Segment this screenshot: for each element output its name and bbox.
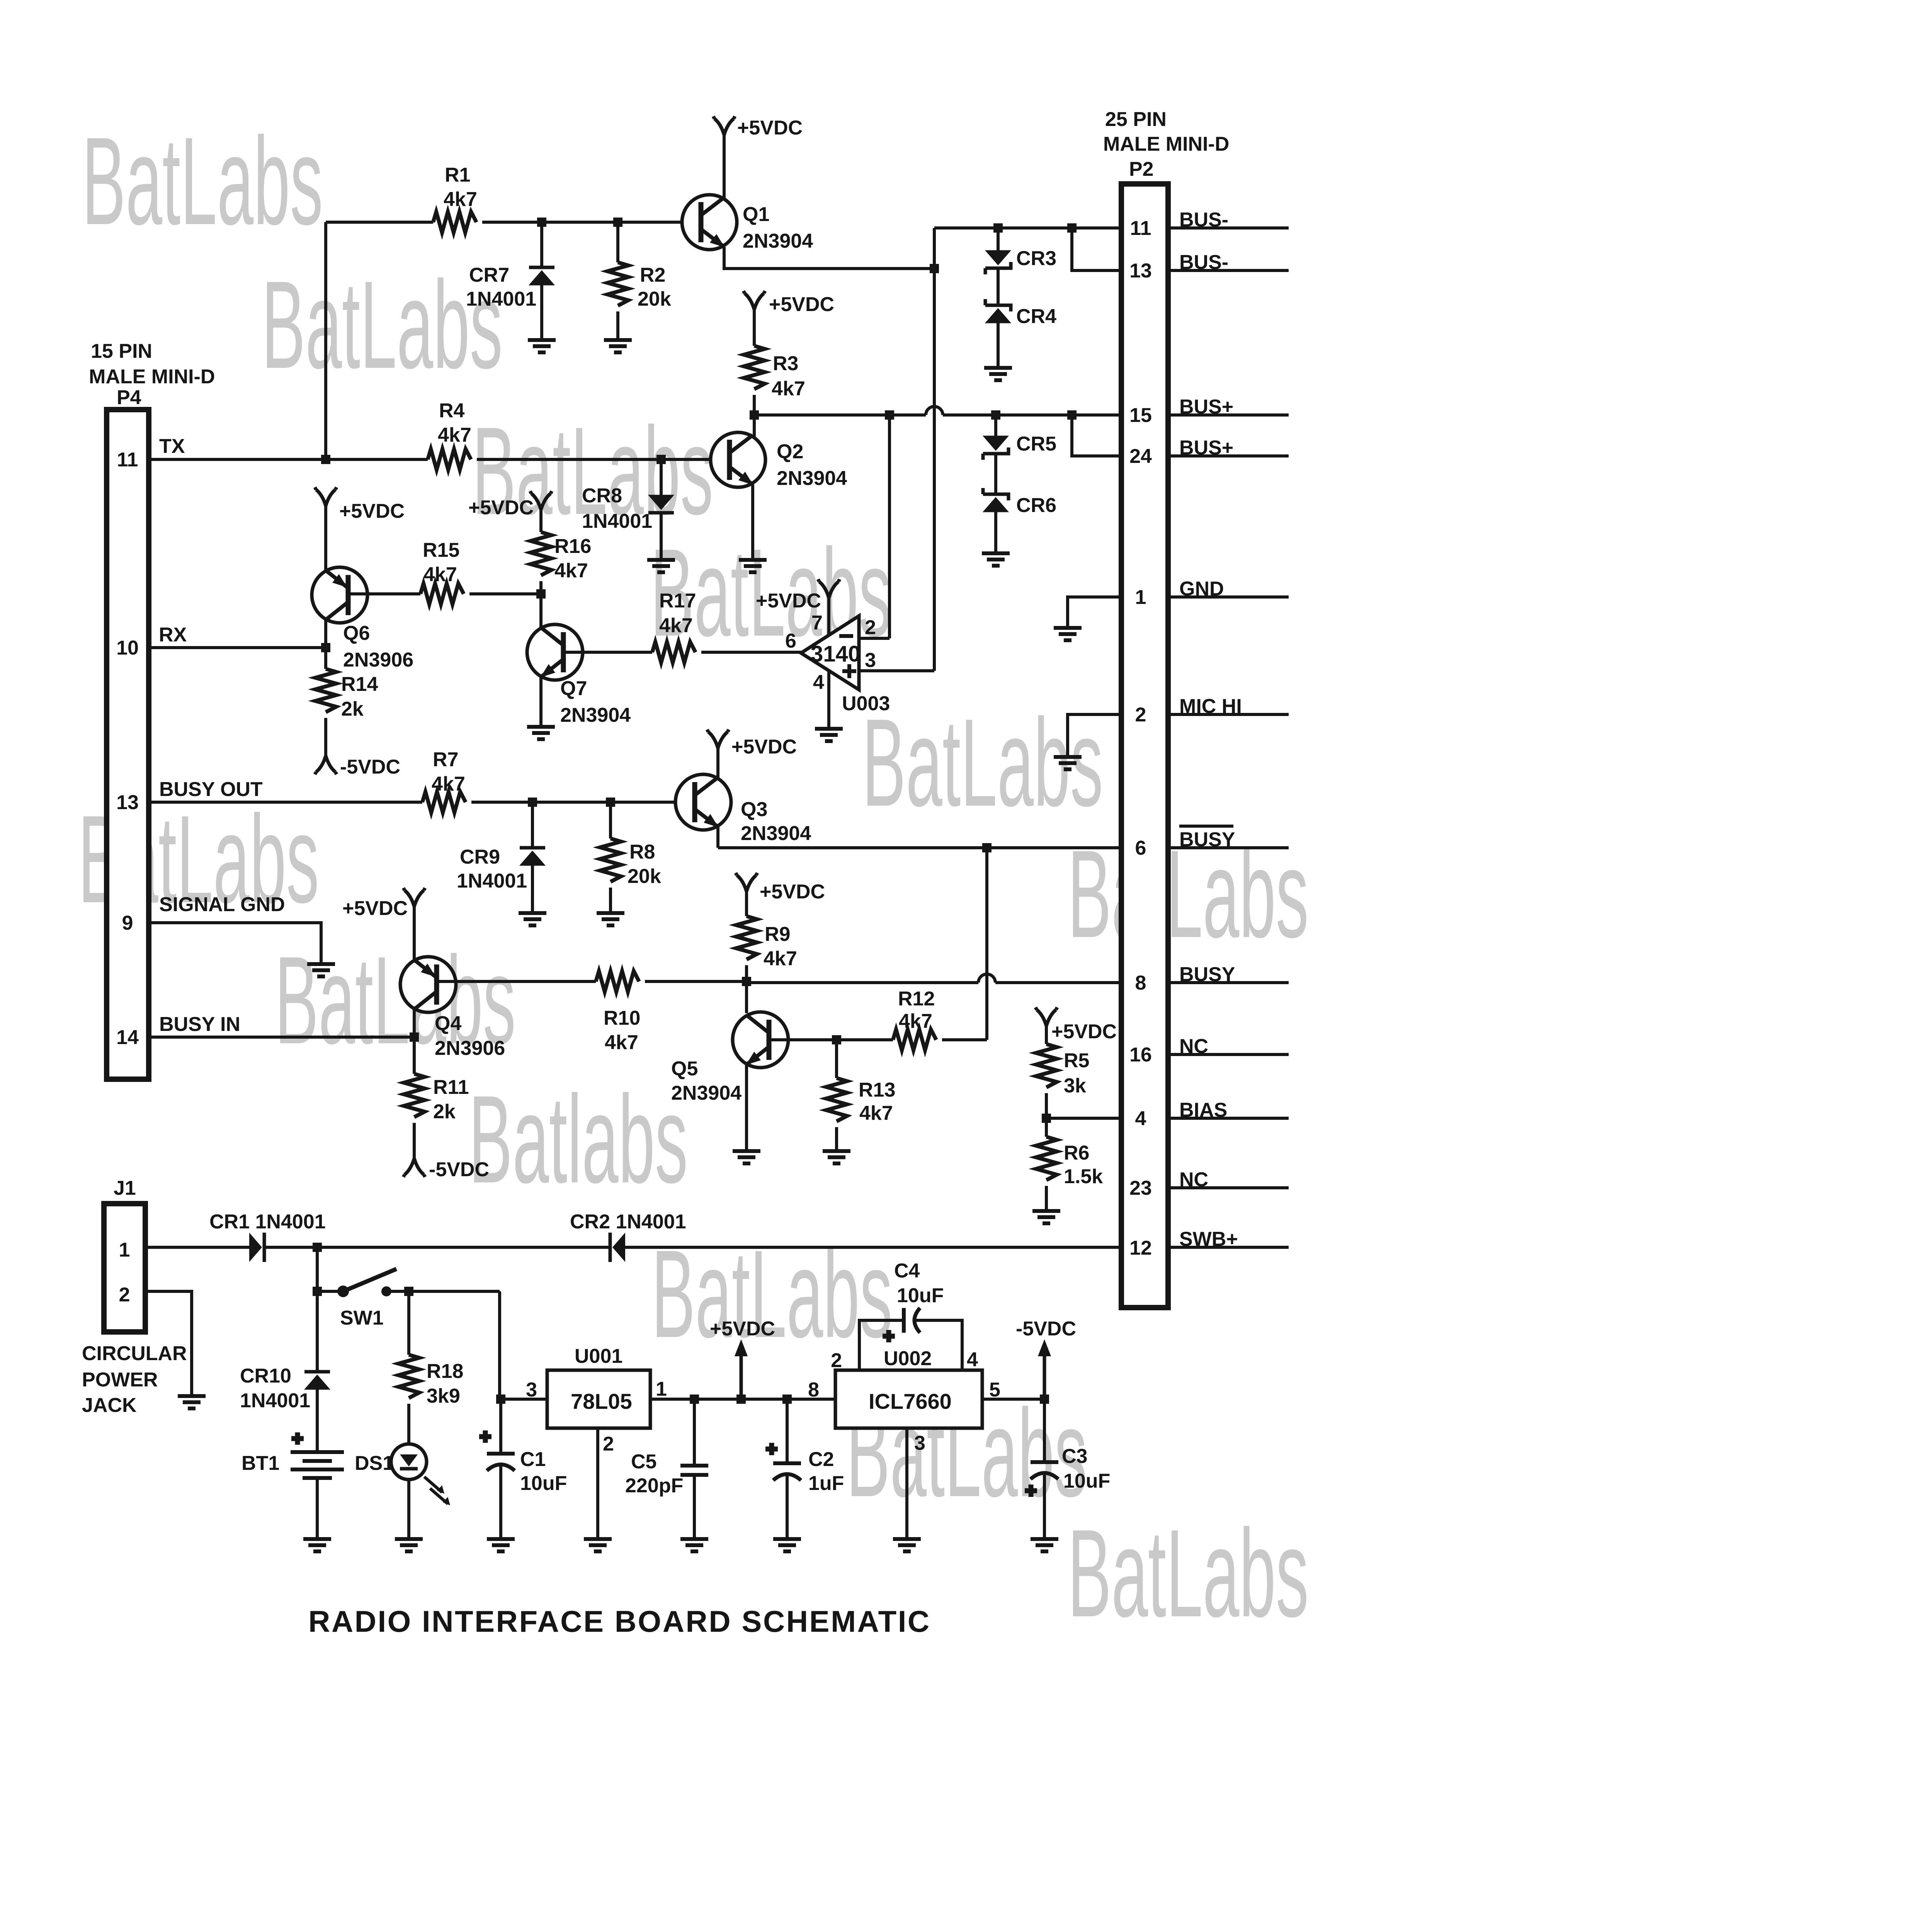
svg-text:Q1: Q1 (743, 203, 769, 226)
svg-text:2: 2 (865, 616, 876, 639)
svg-text:GND: GND (1179, 578, 1224, 600)
wire Q6 collector to RX (324, 620, 327, 648)
capacitor C2 1uF (786, 1399, 789, 1463)
ground below C1 (487, 1539, 515, 1551)
transistor Q2 2N3904 (711, 432, 847, 490)
junction C2 (782, 1395, 792, 1404)
svg-text:7: 7 (811, 612, 823, 634)
P2 pin 12 stub SWB+ (1171, 1246, 1289, 1249)
svg-text:2: 2 (119, 1284, 130, 1306)
capacitor C1 10uF (499, 1399, 502, 1454)
svg-text:8: 8 (1135, 972, 1146, 994)
svg-text:11: 11 (1130, 217, 1151, 240)
wire Q1 collector lead (723, 133, 726, 201)
svg-text:2: 2 (831, 1349, 842, 1372)
svg-text:CR5: CR5 (1016, 433, 1056, 455)
svg-text:BUSY: BUSY (1179, 963, 1235, 986)
svg-text:4k7: 4k7 (899, 1010, 932, 1032)
junction BUS+ at CR5 (991, 410, 1000, 420)
svg-text:CR1 1N4001: CR1 1N4001 (209, 1211, 326, 1233)
LED DS1 (355, 1444, 450, 1505)
power +5VDC at Q6 (315, 487, 337, 506)
junction BUS+ at op-amp rail (885, 410, 894, 420)
svg-text:CR3: CR3 (1016, 247, 1056, 270)
wire hop on BUSY (978, 974, 995, 983)
svg-text:P4: P4 (117, 386, 141, 409)
svg-text:4k7: 4k7 (764, 947, 797, 970)
svg-text:4k7: 4k7 (444, 188, 477, 211)
svg-text:4: 4 (1135, 1107, 1146, 1130)
wire Q7 collector lead (539, 594, 543, 629)
diode CR4 (997, 268, 1000, 305)
resistor R10 4k7 (596, 971, 639, 992)
switch SW1 (317, 1269, 500, 1329)
svg-text:SW1: SW1 (340, 1307, 384, 1329)
wire BUSY OUT row (151, 801, 422, 804)
svg-text:+5VDC: +5VDC (731, 736, 797, 758)
wire Q5 emitter to ground (745, 1065, 748, 1149)
P2 pin 15 stub BUS+ (1171, 413, 1289, 417)
wire Q2 emitter to ground (751, 485, 754, 558)
junction CR7 (537, 218, 546, 227)
svg-text:CR8: CR8 (582, 485, 622, 507)
svg-text:CR7: CR7 (469, 264, 509, 286)
wire U001 pin 2 to ground (596, 1428, 599, 1537)
resistor R6 1.5k (1036, 1137, 1057, 1180)
junction R9 Q5 collector BUSY (742, 977, 751, 986)
wire Q2 collector lead (753, 415, 756, 439)
svg-text:CR10: CR10 (240, 1365, 291, 1387)
power +5VDC at R16 (530, 491, 552, 510)
wire riser TX to R1 (324, 222, 327, 459)
ground below C2 (773, 1539, 801, 1551)
svg-text:R8: R8 (629, 841, 655, 863)
power +5VDC output arrow (740, 1352, 743, 1399)
svg-text:10uF: 10uF (520, 1472, 567, 1495)
wire Q6 base to R15 (348, 592, 420, 595)
svg-text:10uF: 10uF (1063, 1470, 1110, 1492)
svg-text:2N3906: 2N3906 (343, 649, 413, 671)
svg-text:4k7: 4k7 (423, 563, 457, 586)
svg-text:23: 23 (1129, 1177, 1152, 1199)
ground below Q5 (733, 1151, 760, 1163)
power +5VDC at op-amp pin 7 (818, 579, 840, 598)
svg-text:+5VDC: +5VDC (756, 590, 821, 612)
svg-text:R15: R15 (423, 539, 459, 561)
svg-text:BatLabs: BatLabs (262, 255, 503, 395)
regulator U001 78L05 (526, 1345, 667, 1455)
ground at pin 1 (1054, 628, 1082, 640)
P2 pin 13 stub BUS- (1171, 269, 1289, 272)
wire BT1 to ground (316, 1478, 319, 1537)
svg-text:15: 15 (1129, 404, 1152, 427)
svg-text:14: 14 (116, 1026, 139, 1049)
connector P2 25-pin male mini-D body (1121, 184, 1168, 1308)
svg-text:Q3: Q3 (741, 798, 767, 821)
wire R17 to op-amp pin 6 (701, 651, 801, 654)
wire DS1 to ground (407, 1480, 410, 1537)
svg-text:Q2: Q2 (777, 440, 803, 463)
svg-text:1N4001: 1N4001 (240, 1389, 310, 1412)
svg-text:10uF: 10uF (897, 1284, 944, 1307)
svg-text:BUSY IN: BUSY IN (159, 1013, 240, 1036)
wire R4 to Q2 base (477, 458, 711, 461)
wire CR6 to ground (994, 512, 997, 551)
svg-text:JACK: JACK (82, 1394, 137, 1417)
ground below CR6 (982, 553, 1010, 566)
diode CR8 1N4001 (660, 459, 663, 495)
svg-text:25 PIN: 25 PIN (1105, 108, 1167, 131)
svg-text:Q6: Q6 (343, 622, 370, 645)
svg-text:2N3904: 2N3904 (743, 230, 813, 252)
junction CR9 (528, 798, 537, 807)
svg-text:3140: 3140 (811, 641, 861, 667)
diode CR7 1N4001 (540, 222, 543, 266)
svg-text:BT1: BT1 (241, 1452, 279, 1475)
ground below C5 (680, 1539, 708, 1551)
svg-text:U001: U001 (575, 1345, 622, 1367)
svg-text:3: 3 (914, 1432, 925, 1454)
junction R3 Q2 collector on BUS+ (750, 410, 759, 420)
wire BUSY IN row (151, 1036, 414, 1039)
resistor R11 2k (413, 1037, 416, 1074)
wire switch to regulator input (498, 1291, 501, 1399)
svg-text:MALE MINI-D: MALE MINI-D (1103, 133, 1229, 155)
resistor R4 4k7 (428, 449, 471, 470)
svg-text:20k: 20k (628, 865, 661, 888)
junction CR8 (656, 455, 666, 464)
junction C1 (496, 1395, 505, 1404)
junction switch feed (313, 1243, 322, 1252)
svg-text:4k7: 4k7 (859, 1102, 893, 1124)
svg-text:J1: J1 (114, 1177, 136, 1199)
junction BUS- branch (1067, 223, 1077, 233)
svg-text:R4: R4 (439, 400, 465, 422)
svg-text:SWB+: SWB+ (1179, 1228, 1238, 1250)
svg-text:2N3906: 2N3906 (435, 1037, 505, 1060)
svg-text:9: 9 (122, 912, 133, 934)
svg-text:Q5: Q5 (671, 1058, 698, 1080)
svg-text:1N4001: 1N4001 (457, 870, 527, 892)
svg-text:3k: 3k (1064, 1075, 1086, 1097)
svg-text:4k7: 4k7 (659, 614, 693, 637)
svg-text:1N4001: 1N4001 (582, 510, 652, 532)
svg-text:24: 24 (1129, 445, 1152, 468)
svg-text:2N3904: 2N3904 (671, 1082, 742, 1104)
transistor Q4 2N3906 (400, 957, 505, 1060)
ground below CR7 (528, 340, 556, 352)
junction R2 (613, 218, 622, 227)
svg-text:BatLabs: BatLabs (651, 1224, 893, 1364)
wire SIGNAL GND (151, 923, 321, 962)
P2 pin 11 stub BUS- (1171, 226, 1289, 230)
svg-text:C5: C5 (631, 1451, 656, 1473)
ground below op-amp (815, 729, 843, 741)
power +5VDC at R9 (736, 873, 757, 891)
svg-text:R9: R9 (765, 923, 790, 946)
svg-text:15 PIN: 15 PIN (91, 340, 152, 362)
svg-text:BUSY OUT: BUSY OUT (159, 778, 263, 801)
wire op-amp pin 4 to ground (827, 670, 830, 727)
wire CR1 to CR2 (264, 1246, 609, 1249)
wire BUSY net into pin 8 (hop over R12 rail) (747, 981, 1121, 984)
ground below BT1 (303, 1539, 331, 1551)
wire R15 to R16/Q7 (469, 592, 541, 595)
svg-text:2k: 2k (433, 1100, 456, 1123)
svg-text:BatLabs: BatLabs (82, 111, 323, 251)
svg-text:13: 13 (1129, 260, 1152, 282)
svg-text:220pF: 220pF (625, 1475, 683, 1497)
svg-text:R18: R18 (427, 1360, 463, 1383)
junction R8 (606, 798, 615, 807)
resistor R1 4k7 (433, 212, 476, 233)
transistor Q1 2N3904 (682, 195, 813, 252)
junction R13 (832, 1035, 841, 1044)
junction switch row (313, 1287, 322, 1296)
wire Q7 emitter to ground (539, 677, 543, 725)
junction C5 (690, 1395, 699, 1404)
svg-text:4k7: 4k7 (605, 1031, 638, 1054)
ground below R13 (823, 1151, 850, 1163)
transistor Q6 2N3906 (312, 567, 413, 671)
resistor R3 4k7 (753, 308, 756, 346)
junction Q1 emitter on rail (930, 264, 939, 273)
wire op-amp pin2 rail (888, 415, 891, 638)
junction R18 tap (404, 1287, 413, 1296)
resistor R8 20k (609, 802, 612, 838)
svg-text:+5VDC: +5VDC (769, 293, 834, 316)
svg-text:+5VDC: +5VDC (468, 497, 534, 519)
svg-text:4: 4 (813, 671, 824, 694)
power +5VDC at R3 (743, 291, 765, 310)
resistor R13 4k7 (835, 1040, 838, 1078)
svg-text:+5VDC: +5VDC (710, 1318, 775, 1340)
diode CR5 (994, 415, 997, 436)
wire branch to pin 24 (1072, 415, 1121, 456)
wire op-amp pin 7 lead (827, 596, 830, 636)
svg-text:Q4: Q4 (435, 1012, 461, 1035)
capacitor C4 10uF (883, 1260, 944, 1342)
svg-text:NC: NC (1179, 1168, 1208, 1191)
svg-text:16: 16 (1129, 1044, 1152, 1066)
P2 pin 4 stub BIAS (1171, 1117, 1289, 1120)
ground below U001 (584, 1539, 612, 1551)
P2 pin 6 stub BUSY-bar (1171, 846, 1289, 849)
svg-text:1.5k: 1.5k (1064, 1165, 1103, 1188)
resistor R14 2k (324, 648, 327, 669)
op-amp U003 3140 (785, 612, 890, 715)
svg-text:CR9: CR9 (460, 846, 500, 868)
svg-text:BUS-: BUS- (1179, 209, 1228, 231)
wire Q6 emitter lead (324, 504, 327, 573)
resistor R15 4k7 (420, 583, 464, 604)
svg-text:C3: C3 (1062, 1445, 1087, 1468)
wire BIAS pin 4 (1046, 1117, 1121, 1120)
battery BT1 (241, 1432, 344, 1478)
resistor R7 4k7 (422, 792, 466, 813)
diode CR3 (997, 228, 1000, 250)
svg-text:2: 2 (1135, 704, 1146, 726)
svg-text:-5VDC: -5VDC (1016, 1318, 1076, 1340)
transistor Q5 2N3904 (671, 1012, 788, 1104)
svg-text:2N3904: 2N3904 (560, 704, 631, 726)
junction BUSY IN at Q4/R11 (410, 1032, 419, 1042)
svg-text:1: 1 (1135, 586, 1146, 609)
wire Q5 base to R12 (769, 1038, 893, 1041)
wire BUS+ net into pin 15 (hop over op-amp pin3 rail) (754, 413, 1121, 417)
ground below DS1 (395, 1539, 423, 1551)
svg-text:RX: RX (159, 624, 187, 646)
svg-text:4k7: 4k7 (432, 773, 465, 795)
svg-text:3: 3 (865, 649, 876, 672)
wire R1 to Q1 base (482, 221, 683, 224)
ground below Q7 (527, 727, 555, 739)
resistor R18 3k9 (407, 1291, 410, 1355)
ground below U002 (893, 1539, 921, 1551)
junction R15 R16 Q7 (536, 589, 546, 599)
wire BUSY-bar net into pin 6 (718, 846, 1121, 849)
svg-text:Batlabs: Batlabs (469, 1069, 688, 1209)
svg-text:4k7: 4k7 (554, 560, 588, 582)
svg-text:CR6: CR6 (1016, 494, 1056, 517)
P2 pin 24 stub BUS+ (1171, 454, 1289, 457)
svg-text:-5VDC: -5VDC (340, 756, 400, 778)
power +5VDC at Q4 (403, 888, 425, 906)
wire R1 row left (326, 221, 433, 224)
junction TX riser (321, 455, 330, 464)
wire pin 1 GND to ground (1068, 597, 1121, 626)
wire R10 to R9/Q5 junction (645, 980, 747, 983)
svg-text:2: 2 (603, 1433, 614, 1455)
ground at SIGNAL GND (307, 964, 335, 976)
wire U002 pin 3 to ground (905, 1428, 908, 1537)
wire CR2 to P2 pin 12 SWB+ (625, 1246, 1121, 1249)
wire Q4 emitter lead (413, 905, 416, 962)
wire J1 pin 2 to ground (148, 1291, 192, 1394)
resistor R12 4k7 (893, 1029, 936, 1050)
ground below CR4 (984, 368, 1012, 380)
svg-text:6: 6 (1135, 837, 1146, 859)
diode CR2 1N4001 (610, 1233, 625, 1262)
svg-text:1uF: 1uF (808, 1472, 844, 1495)
svg-text:DS1: DS1 (355, 1452, 394, 1475)
converter U002 ICL7660 (808, 1347, 1000, 1454)
svg-text:MALE MINI-D: MALE MINI-D (89, 366, 215, 388)
connector J1 circular power jack body (104, 1204, 145, 1332)
power -5VDC below R11 (403, 1158, 425, 1177)
svg-text:2N3904: 2N3904 (777, 467, 847, 490)
diode CR1 1N4001 (249, 1233, 264, 1262)
junction BUS- at CR3 (993, 223, 1003, 233)
svg-text:BIAS: BIAS (1179, 1099, 1227, 1121)
junction +5VDC arrow (736, 1395, 746, 1404)
transistor Q3 2N3904 (675, 774, 811, 845)
svg-text:CR4: CR4 (1016, 305, 1056, 328)
wire Q3 collector lead (716, 747, 719, 781)
svg-text:ICL7660: ICL7660 (869, 1389, 952, 1413)
wire +5V rail U001 to U002 (650, 1398, 835, 1401)
wire Q5 collector lead (745, 981, 748, 1013)
ground below C3 (1031, 1539, 1058, 1551)
svg-text:+5VDC: +5VDC (760, 881, 825, 903)
ground below R6 (1032, 1211, 1060, 1223)
wire Q4 base to BUSY IN (413, 1009, 416, 1037)
svg-text:2N3904: 2N3904 (741, 822, 811, 845)
svg-text:78L05: 78L05 (571, 1389, 632, 1413)
svg-text:R11: R11 (433, 1076, 469, 1099)
svg-text:1N4001: 1N4001 (466, 288, 536, 310)
capacitor C3 10uF (1043, 1399, 1046, 1462)
svg-text:R17: R17 (659, 590, 696, 612)
svg-text:R10: R10 (604, 1007, 640, 1029)
wire TX row (151, 458, 428, 461)
resistor R16 4k7 (539, 508, 543, 532)
ground below CR9 (519, 913, 546, 925)
wire R7 to Q3 base (471, 801, 676, 804)
svg-text:CIRCULAR: CIRCULAR (82, 1342, 187, 1365)
svg-text:+5VDC: +5VDC (1051, 1020, 1117, 1043)
svg-text:SIGNAL GND: SIGNAL GND (159, 893, 285, 916)
svg-text:P2: P2 (1129, 158, 1154, 180)
svg-text:R16: R16 (554, 535, 591, 558)
connector P4 15-pin male mini-D body (107, 410, 149, 1079)
svg-text:C4: C4 (894, 1260, 920, 1282)
P2 pin 16 stub NC (1171, 1053, 1289, 1056)
svg-text:+5VDC: +5VDC (339, 500, 405, 522)
junction RX at Q6/R14 (321, 643, 330, 652)
svg-text:NC: NC (1179, 1035, 1208, 1058)
wire BUS- net into pin 11 (934, 226, 1121, 230)
ground below R8 (597, 913, 624, 925)
svg-text:3: 3 (526, 1379, 537, 1401)
svg-text:Q7: Q7 (560, 677, 587, 700)
svg-text:BUS+: BUS+ (1179, 396, 1233, 418)
resistor R5 3k (1045, 1024, 1048, 1044)
capacitor C5 220pF (693, 1399, 696, 1466)
wire Q4 output to R10 (437, 980, 596, 983)
svg-text:BUS-: BUS- (1179, 251, 1228, 274)
diode CR10 1N4001 (304, 1372, 330, 1389)
transistor Q7 2N3904 (527, 624, 631, 726)
svg-text:8: 8 (808, 1379, 819, 1401)
P2 pin 1 stub GND (1171, 595, 1289, 599)
svg-text:U002: U002 (884, 1347, 932, 1370)
svg-text:1: 1 (119, 1239, 130, 1261)
svg-text:13: 13 (116, 791, 139, 814)
wire rail pin6 to R12 (985, 848, 988, 1040)
wire RX row (151, 646, 326, 649)
resistor R9 4k7 (745, 890, 748, 916)
svg-text:20k: 20k (638, 288, 671, 310)
svg-text:R7: R7 (433, 748, 458, 771)
svg-text:R13: R13 (859, 1079, 895, 1101)
svg-text:+5VDC: +5VDC (342, 897, 408, 920)
junction R5/R6 at BIAS (1042, 1114, 1051, 1123)
svg-text:6: 6 (785, 630, 796, 652)
wire op-amp pin 2 out (859, 637, 889, 640)
wire U002 pin 2 riser and C4 loop (859, 1320, 962, 1370)
svg-text:RADIO INTERFACE BOARD SCHEMATI: RADIO INTERFACE BOARD SCHEMATIC (308, 1604, 931, 1638)
svg-text:11: 11 (117, 449, 138, 471)
svg-text:BUS+: BUS+ (1179, 437, 1233, 459)
wire Q7 output to R17 (563, 651, 652, 654)
svg-text:R1: R1 (445, 164, 470, 186)
svg-text:R2: R2 (640, 264, 665, 286)
P2 pin 2 stub MIC HI (1171, 713, 1289, 716)
svg-text:2k: 2k (341, 698, 364, 720)
wire op-amp pin3 rail to BUS- (933, 228, 936, 671)
svg-text:POWER: POWER (82, 1369, 158, 1391)
